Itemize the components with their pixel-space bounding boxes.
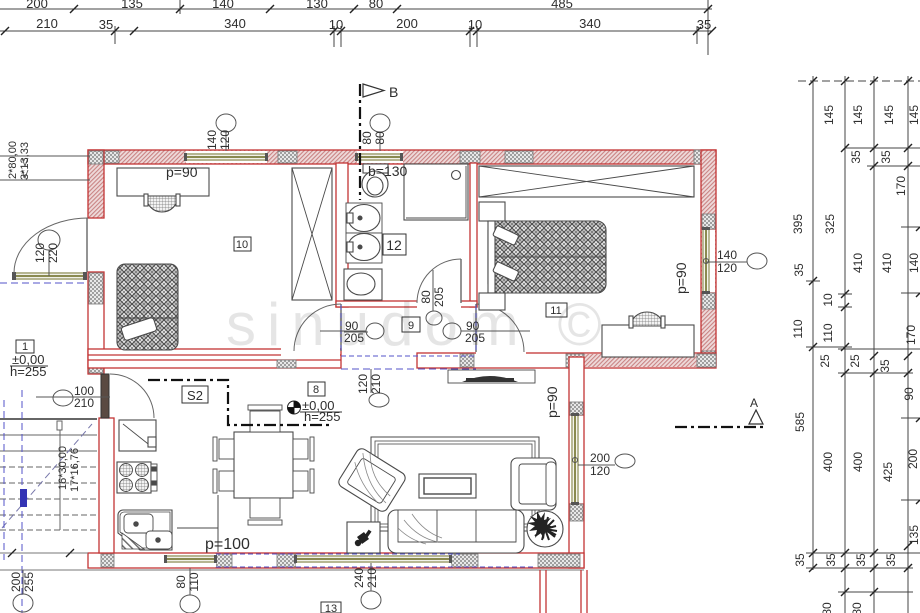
svg-text:135: 135: [121, 0, 143, 11]
svg-text:395: 395: [791, 214, 805, 234]
svg-text:210: 210: [74, 396, 94, 410]
svg-text:11: 11: [550, 305, 561, 317]
svg-text:35: 35: [849, 150, 863, 164]
svg-text:17*16,76: 17*16,76: [69, 448, 81, 492]
living east wall: [569, 357, 584, 568]
bottom exterior wall: [88, 553, 584, 568]
window 140/120 right: [747, 253, 767, 269]
right dim texts (rotated): [791, 105, 920, 613]
svg-text:130: 130: [306, 0, 328, 11]
kitchen west wall: [99, 418, 114, 553]
svg-text:255: 255: [22, 572, 36, 592]
door leaf 100/210 (dark): [101, 374, 109, 418]
svg-text:80: 80: [373, 131, 387, 145]
hall right 90/205: [443, 323, 461, 339]
svg-text:80: 80: [850, 602, 864, 613]
coffee table: [419, 474, 476, 498]
svg-text:200: 200: [396, 16, 418, 31]
door opening in room11 south wall: [476, 352, 526, 360]
140/120 top window: [216, 114, 236, 132]
bath washing machine: [344, 269, 382, 300]
svg-text:110: 110: [187, 572, 201, 591]
bottom 240/210: [361, 591, 381, 609]
top dim texts row1: [26, 0, 573, 11]
north wall window gap 2: [357, 151, 403, 163]
svg-text:340: 340: [224, 16, 246, 31]
dining chairs left: [219, 439, 234, 459]
top dim texts row2: [36, 16, 711, 32]
svg-text:585: 585: [793, 412, 807, 432]
svg-text:10: 10: [821, 293, 835, 307]
svg-text:220: 220: [46, 243, 60, 263]
steps top-left exterior: [0, 155, 90, 157]
room number boxes: [16, 234, 567, 613]
svg-text:16*30,00: 16*30,00: [57, 446, 69, 490]
sofa: [388, 510, 524, 553]
svg-text:h=255: h=255: [304, 409, 341, 424]
svg-text:120: 120: [356, 374, 370, 394]
svg-text:485: 485: [551, 0, 573, 11]
column verticals: [812, 76, 814, 570]
svg-text:35: 35: [884, 553, 898, 567]
armchair right: [511, 458, 556, 510]
door bath: [417, 259, 461, 303]
svg-text:135: 135: [907, 525, 920, 545]
A section: [675, 426, 766, 428]
horizontal fraction texts: [74, 248, 746, 478]
bottom 200/255: [13, 594, 33, 612]
plant: [527, 511, 563, 547]
door kitchen 100/210 arc: [110, 374, 154, 418]
svg-text:2*80,00: 2*80,00: [7, 141, 19, 179]
entry door arc: [14, 218, 88, 273]
east exterior wall upper: [701, 150, 716, 366]
bath shower: [404, 164, 468, 220]
rotated fraction texts: [7, 130, 446, 592]
svg-text:145: 145: [822, 105, 836, 125]
svg-text:b=130: b=130: [368, 163, 408, 179]
north wall masonry blocks: [100, 151, 119, 163]
svg-text:240: 240: [352, 568, 366, 588]
svg-text:10: 10: [468, 17, 482, 32]
svg-text:170: 170: [894, 176, 908, 196]
dining table: [234, 432, 293, 498]
svg-text:80: 80: [369, 0, 383, 11]
bottom 80/110: [180, 595, 200, 613]
svg-text:140: 140: [717, 248, 737, 262]
svg-text:120: 120: [717, 261, 737, 275]
svg-text:205: 205: [465, 331, 485, 345]
section B triangle: [363, 84, 384, 97]
svg-text:p=100: p=100: [205, 536, 250, 553]
sliding door bottom 240/210: [294, 555, 452, 563]
room10 south wall band: [88, 349, 341, 368]
svg-text:140: 140: [212, 0, 234, 11]
svg-text:80: 80: [419, 290, 433, 304]
svg-text:9: 9: [408, 320, 414, 332]
svg-text:10: 10: [329, 17, 343, 32]
window room11 east 140/120: [702, 227, 710, 294]
kitchen fridge: [119, 420, 156, 451]
extension verticals: [179, 0, 181, 14]
bath basin 2: [346, 233, 382, 263]
svg-text:p=90: p=90: [544, 386, 560, 418]
svg-text:80: 80: [360, 131, 374, 145]
svg-text:410: 410: [851, 253, 865, 273]
TV sideboard: [448, 370, 535, 383]
room11 nightstand top: [479, 202, 505, 221]
room10 desk: [117, 168, 209, 196]
svg-text:145: 145: [851, 105, 865, 125]
room10 bed: [117, 264, 178, 350]
svg-text:3*13,33: 3*13,33: [19, 142, 31, 180]
kitchen stove: [117, 462, 151, 493]
svg-text:170: 170: [904, 325, 918, 345]
top extension dash line: [798, 80, 920, 82]
svg-text:8: 8: [313, 384, 319, 396]
door room11 from hall: [476, 304, 524, 352]
svg-text:200: 200: [590, 451, 610, 465]
window bottom kitchen 80/110: [164, 555, 217, 563]
bath basin 1: [346, 203, 382, 233]
north wall window gap 1: [186, 151, 267, 163]
tick slashes: [809, 77, 920, 596]
armchair top-left (rotated): [337, 447, 408, 514]
S2 section: [148, 380, 333, 425]
bottom wall window gaps: [166, 554, 216, 567]
svg-text:200: 200: [26, 0, 48, 11]
dim circles with stems and fraction labels: [13, 114, 767, 613]
svg-text:35: 35: [697, 17, 711, 32]
row1 tick marks: [70, 5, 712, 13]
svg-text:35: 35: [879, 150, 893, 164]
svg-text:35: 35: [792, 263, 806, 277]
svg-text:200: 200: [9, 572, 23, 592]
svg-text:205: 205: [344, 331, 364, 345]
100/210: [53, 390, 73, 406]
B section: [359, 84, 361, 200]
entry 120/220: [38, 230, 60, 250]
svg-text:140: 140: [907, 253, 920, 273]
bath 80/205: [426, 311, 442, 325]
hall north wall: [336, 301, 477, 307]
svg-text:325: 325: [823, 214, 837, 234]
room10 chair: [146, 196, 178, 212]
kitchen corner sink unit: [118, 510, 172, 550]
hall left 90/205: [366, 323, 384, 339]
door room10 from hall: [294, 304, 341, 351]
svg-text:110: 110: [821, 323, 835, 342]
svg-text:400: 400: [851, 452, 865, 472]
bathroom west wall: [336, 163, 348, 307]
row2 tick marks: [1, 27, 716, 35]
svg-text:35: 35: [793, 553, 807, 567]
room11 desk: [602, 325, 694, 357]
svg-text:p=90: p=90: [166, 164, 198, 180]
svg-text:25: 25: [848, 354, 862, 368]
dining chair top: [250, 411, 280, 432]
kitchen counter: [177, 528, 218, 552]
living carpet: [371, 437, 539, 531]
svg-text:p=90: p=90: [673, 262, 689, 294]
room11 wardrobe: [479, 166, 694, 197]
door opening room10: [281, 348, 340, 356]
svg-text:35: 35: [878, 359, 892, 373]
bath WC: [363, 164, 388, 173]
svg-text:210: 210: [365, 568, 379, 588]
dimension line row 1: [0, 8, 712, 10]
svg-text:80: 80: [820, 602, 834, 613]
svg-text:12: 12: [386, 237, 402, 253]
dimension line row 2: [0, 30, 712, 32]
svg-text:B: B: [389, 84, 398, 100]
side table with symbol: [347, 522, 380, 553]
svg-text:35: 35: [854, 553, 868, 567]
svg-text:90: 90: [902, 387, 916, 401]
section A triangle: [749, 410, 763, 424]
svg-text:140: 140: [205, 130, 219, 150]
window bath north 80/80: [355, 153, 403, 161]
bathroom east wall: [470, 163, 477, 307]
svg-text:120: 120: [218, 130, 232, 150]
north exterior wall: [88, 150, 716, 164]
svg-text:200: 200: [906, 449, 920, 469]
svg-text:35: 35: [824, 553, 838, 567]
passage 120/210: [369, 393, 389, 407]
svg-text:425: 425: [881, 462, 895, 482]
svg-text:10: 10: [236, 239, 248, 251]
svg-text:S2: S2: [187, 388, 203, 403]
svg-text:120: 120: [590, 464, 610, 478]
svg-text:A: A: [750, 396, 758, 410]
window 200/120 living: [615, 454, 635, 468]
svg-text:210: 210: [369, 374, 383, 394]
svg-text:410: 410: [880, 253, 894, 273]
entry door threshold 120/220: [12, 272, 87, 280]
80/80 top window: [370, 114, 390, 132]
dining chairs right: [293, 439, 308, 459]
svg-text:110: 110: [791, 319, 805, 338]
dining chair bottom: [250, 498, 280, 518]
svg-text:13: 13: [325, 603, 337, 613]
room11 chair: [631, 312, 663, 326]
svg-text:210: 210: [36, 16, 58, 31]
svg-text:145: 145: [882, 105, 896, 125]
south wall of room 11 / living north band: [417, 353, 716, 368]
room11 nightstand bottom: [479, 293, 505, 310]
svg-text:80: 80: [174, 575, 188, 589]
room10 wardrobe: [292, 168, 332, 300]
level marks: [10, 352, 342, 424]
horizontal connectors: [806, 280, 820, 282]
svg-text:145: 145: [907, 105, 920, 125]
svg-text:400: 400: [821, 452, 835, 472]
window living east 200/120: [571, 413, 579, 505]
svg-text:25: 25: [818, 354, 832, 368]
svg-text:120: 120: [33, 243, 47, 263]
svg-text:35: 35: [99, 17, 113, 32]
svg-text:205: 205: [432, 287, 446, 307]
svg-text:340: 340: [579, 16, 601, 31]
west exterior wall: [88, 150, 104, 218]
window room10 north 140/120: [184, 153, 268, 161]
room11 bed (double): [488, 221, 606, 293]
